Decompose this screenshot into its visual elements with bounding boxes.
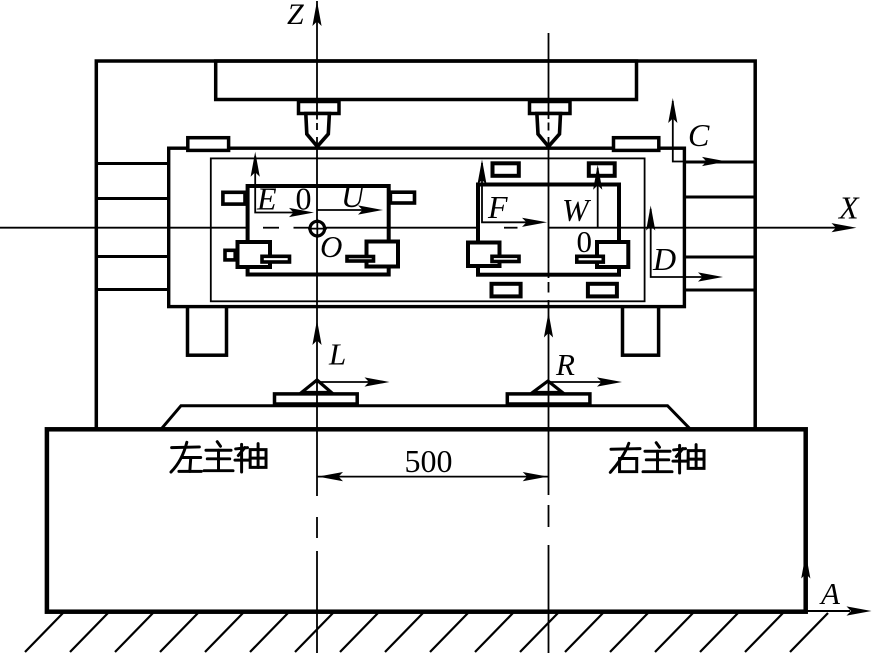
X axis: [0, 227, 848, 229]
Z axis centerline left spindle: [316, 1, 318, 653]
left workpiece upper-left tab: [223, 192, 245, 204]
svg-text:E: E: [256, 181, 277, 217]
right workpiece top-left block: [493, 163, 519, 176]
left spindle tool: [306, 114, 330, 147]
right carriage pointer triangle: [533, 381, 563, 393]
right workpiece right clamp bar: [577, 256, 604, 262]
label zuo-zhu-zhou (left spindle) hand-drawn glyphs: [171, 442, 266, 472]
right workpiece box: [478, 185, 619, 275]
right workpiece left clamp block: [468, 243, 500, 267]
workpiece origin target symbol: [308, 219, 327, 238]
X axis arrowhead: [832, 223, 857, 232]
ground line extension with arrow A axis horizontal: [806, 606, 872, 615]
dimension line 500: [317, 472, 549, 481]
pedestal top with chamfers: [162, 406, 690, 429]
left carriage pointer triangle: [302, 380, 332, 393]
char zuo: [171, 442, 201, 472]
left workpiece right clamp bar: [347, 257, 374, 262]
R axis horizontal arrow: [549, 377, 623, 386]
outer frame (portal): [96, 61, 755, 428]
ground hatching: [25, 613, 828, 652]
left workpiece right clamp block: [367, 242, 399, 267]
svg-text:Z: Z: [287, 0, 304, 31]
left carriage: [275, 394, 358, 404]
crossbeam: [216, 61, 637, 100]
right spindle centerline: [548, 33, 550, 653]
E coordinate frame: [251, 152, 314, 217]
left leg: [188, 305, 227, 355]
right workpiece right clamp block: [597, 242, 628, 267]
left workpiece left clamp bar: [262, 256, 290, 262]
svg-text:D: D: [652, 241, 676, 277]
svg-text:A: A: [819, 576, 841, 611]
svg-text:U: U: [341, 178, 366, 214]
right spindle tool: [537, 114, 561, 147]
left spindle tool holder: [299, 102, 340, 114]
U axis arrow: [317, 205, 383, 214]
right spindle tool holder: [530, 102, 571, 114]
svg-text:O: O: [320, 229, 342, 264]
small block on table top right: [614, 138, 659, 151]
left workpiece left clamp block: [238, 242, 271, 267]
right workpiece bottom-left block: [492, 284, 521, 297]
right workpiece top-right block: [589, 163, 615, 176]
right leg: [623, 305, 659, 355]
right side step lines: [684, 162, 755, 290]
char zhu: [204, 442, 233, 471]
table outer rectangle: [169, 148, 685, 306]
char zhou: [673, 445, 704, 473]
left workpiece left clamp outer tab: [225, 250, 235, 260]
svg-text:R: R: [555, 347, 575, 382]
machine base block: [47, 429, 806, 611]
Z axis top arrowhead: [312, 1, 321, 26]
R axis up arrowhead: [544, 313, 553, 338]
left workpiece upper-right tab: [390, 192, 414, 203]
right carriage: [507, 394, 590, 404]
svg-text:0: 0: [577, 224, 593, 259]
left side step lines: [96, 164, 168, 290]
D coordinate frame: [646, 206, 723, 282]
L axis up arrowhead: [312, 320, 321, 345]
right workpiece left clamp bar: [492, 256, 519, 261]
svg-text:L: L: [328, 337, 346, 372]
label you-zhu-zhou (right spindle) hand-drawn glyphs: [610, 443, 704, 473]
char you: [610, 443, 640, 472]
small block on table top left: [188, 138, 229, 151]
A axis up arrowhead on base right edge: [801, 554, 810, 579]
left workpiece box: [248, 186, 389, 275]
svg-text:W: W: [562, 192, 592, 228]
char zhou: [235, 444, 266, 472]
char zhu: [643, 443, 672, 472]
svg-text:500: 500: [405, 443, 453, 479]
svg-text:X: X: [837, 190, 860, 226]
W axis arrow: [593, 165, 602, 228]
svg-text:F: F: [487, 189, 508, 225]
F coordinate frame: [477, 160, 547, 227]
right workpiece bottom-right block: [588, 284, 617, 297]
C coordinate frame: [668, 98, 727, 166]
svg-text:0: 0: [296, 181, 312, 217]
L axis horizontal arrow: [317, 377, 390, 386]
svg-text:C: C: [688, 117, 710, 153]
table inner thin rectangle: [211, 158, 645, 301]
